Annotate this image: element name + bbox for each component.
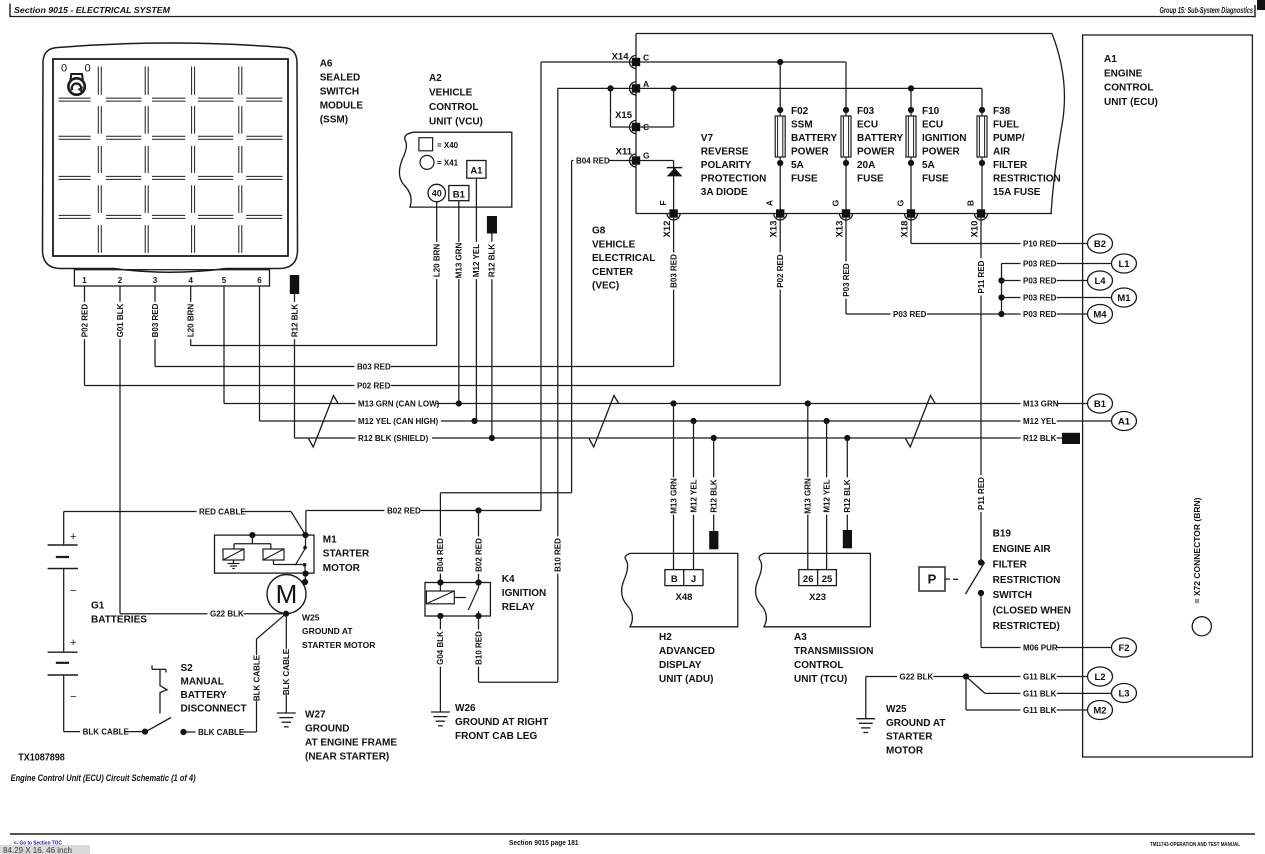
svg-text:M06 PUR: M06 PUR (1023, 643, 1058, 652)
svg-text:40: 40 (432, 188, 442, 198)
svg-text:BATTERY: BATTERY (181, 690, 227, 701)
svg-text:P11 RED: P11 RED (977, 477, 986, 510)
svg-text:B1: B1 (1094, 399, 1107, 410)
svg-text:A1: A1 (1104, 54, 1117, 65)
svg-text:FILTER: FILTER (993, 559, 1028, 570)
svg-text:(NEAR STARTER): (NEAR STARTER) (305, 752, 389, 763)
svg-text:P11 RED: P11 RED (977, 260, 986, 293)
svg-text:B1: B1 (453, 189, 466, 200)
svg-text:84.29 X 16. 46 inch: 84.29 X 16. 46 inch (3, 846, 72, 854)
svg-text:SSM: SSM (791, 120, 813, 131)
svg-text:FRONT CAB LEG: FRONT CAB LEG (455, 731, 537, 742)
svg-text:P: P (928, 572, 937, 587)
svg-text:Section 9015 page 181: Section 9015 page 181 (509, 838, 579, 847)
svg-text:IGNITION: IGNITION (502, 588, 546, 599)
svg-text:M13 GRN: M13 GRN (1023, 399, 1059, 408)
svg-text:F2: F2 (1118, 643, 1129, 654)
svg-text:A1: A1 (1118, 416, 1131, 427)
svg-text:L2: L2 (1094, 672, 1105, 683)
svg-text:3: 3 (153, 276, 158, 285)
svg-text:(CLOSED WHEN: (CLOSED WHEN (993, 606, 1071, 617)
svg-text:G: G (831, 199, 841, 206)
svg-text:POWER: POWER (922, 147, 961, 158)
svg-text:BATTERY: BATTERY (791, 133, 837, 144)
svg-text:AIR: AIR (993, 147, 1011, 158)
svg-text:P02 RED: P02 RED (357, 381, 391, 390)
svg-text:−: − (70, 691, 76, 703)
svg-text:MOTOR: MOTOR (886, 745, 924, 756)
svg-text:G11 BLK: G11 BLK (1023, 672, 1057, 681)
svg-text:M1: M1 (1117, 293, 1131, 304)
svg-text:G01 BLK: G01 BLK (116, 303, 125, 337)
svg-text:ELECTRICAL: ELECTRICAL (592, 253, 655, 264)
svg-text:(SSM): (SSM) (320, 115, 348, 126)
svg-text:M12 YEL: M12 YEL (689, 479, 698, 512)
svg-text:F38: F38 (993, 106, 1011, 117)
svg-text:Engine Control Unit (ECU) Circ: Engine Control Unit (ECU) Circuit Schema… (11, 773, 196, 783)
svg-text:P03 RED: P03 RED (1023, 310, 1057, 319)
svg-text:M13 GRN (CAN LOW): M13 GRN (CAN LOW) (358, 399, 440, 408)
svg-text:5A: 5A (791, 160, 804, 171)
svg-text:X48: X48 (676, 592, 693, 603)
svg-text:X13: X13 (835, 221, 846, 238)
svg-text:C: C (643, 122, 649, 132)
svg-text:= X40: = X40 (437, 141, 459, 150)
svg-text:STARTER: STARTER (886, 732, 933, 743)
svg-text:A: A (765, 200, 775, 206)
svg-text:L3: L3 (1118, 688, 1129, 699)
svg-text:X13: X13 (769, 221, 780, 238)
svg-text:TX1087898: TX1087898 (18, 752, 65, 764)
svg-text:M13 GRN: M13 GRN (804, 478, 813, 514)
svg-text:26: 26 (803, 574, 814, 585)
svg-text:W26: W26 (455, 703, 476, 714)
svg-text:L20 BRN: L20 BRN (433, 244, 442, 278)
svg-text:B03 RED: B03 RED (669, 254, 678, 288)
svg-text:C: C (643, 53, 649, 63)
svg-text:REVERSE: REVERSE (701, 147, 749, 158)
svg-text:GROUND AT: GROUND AT (886, 718, 945, 729)
svg-text:B03 RED: B03 RED (151, 303, 160, 337)
svg-text:B2: B2 (1094, 239, 1106, 250)
svg-text:POWER: POWER (791, 147, 830, 158)
svg-text:P03 RED: P03 RED (1023, 276, 1057, 285)
svg-text:B04 RED: B04 RED (576, 157, 610, 166)
svg-text:ENGINE: ENGINE (1104, 68, 1143, 79)
svg-text:Group 15: Sub-System Diagnosti: Group 15: Sub-System Diagnostics (1160, 6, 1254, 15)
svg-text:M1: M1 (323, 534, 337, 545)
svg-text:L1: L1 (1118, 259, 1130, 270)
svg-text:P02 RED: P02 RED (80, 304, 89, 338)
svg-text:UNIT (TCU): UNIT (TCU) (794, 674, 847, 685)
svg-text:ENGINE AIR: ENGINE AIR (993, 544, 1052, 555)
svg-text:FUSE: FUSE (922, 174, 949, 185)
svg-text:G11 BLK: G11 BLK (1023, 706, 1057, 715)
svg-text:FUSE: FUSE (857, 174, 884, 185)
svg-text:BATTERIES: BATTERIES (91, 615, 147, 626)
svg-text:FUSE: FUSE (791, 174, 818, 185)
svg-text:(VEC): (VEC) (592, 281, 619, 292)
svg-text:H2: H2 (659, 632, 672, 643)
svg-text:P03 RED: P03 RED (1023, 259, 1057, 268)
svg-text:B: B (671, 574, 678, 585)
svg-text:B03 RED: B03 RED (357, 362, 391, 371)
svg-text:R12 BLK (SHIELD): R12 BLK (SHIELD) (358, 434, 429, 443)
svg-text:UNIT (ADU): UNIT (ADU) (659, 674, 713, 685)
svg-text:G22 BLK: G22 BLK (210, 610, 244, 619)
svg-text:M2: M2 (1093, 705, 1106, 716)
svg-text:BLK CABLE: BLK CABLE (282, 648, 291, 695)
svg-text:RELAY: RELAY (502, 602, 535, 613)
svg-text:S2: S2 (181, 663, 194, 674)
svg-text:20A: 20A (857, 160, 875, 171)
svg-text:G8: G8 (592, 226, 606, 237)
svg-text:F02: F02 (791, 106, 809, 117)
svg-text:X18: X18 (900, 221, 911, 238)
svg-text:X12: X12 (662, 221, 673, 238)
svg-text:A6: A6 (320, 59, 333, 70)
svg-text:−: − (70, 585, 76, 597)
svg-text:L4: L4 (1094, 276, 1106, 287)
svg-text:3A DIODE: 3A DIODE (701, 187, 748, 198)
svg-text:CONTROL: CONTROL (794, 660, 843, 671)
svg-text:GROUND AT: GROUND AT (302, 626, 353, 636)
svg-text:STARTER MOTOR: STARTER MOTOR (302, 640, 375, 650)
svg-text:B02 RED: B02 RED (387, 506, 421, 515)
svg-text:W25: W25 (302, 612, 320, 622)
svg-text:G11 BLK: G11 BLK (1023, 689, 1057, 698)
svg-text:R12 BLK: R12 BLK (290, 304, 299, 338)
svg-text:M12 YEL: M12 YEL (472, 244, 481, 277)
svg-text:B19: B19 (993, 529, 1012, 540)
svg-text:X23: X23 (809, 592, 826, 603)
svg-text:J: J (691, 574, 696, 585)
svg-text:A1: A1 (470, 165, 483, 176)
svg-text:PUMP/: PUMP/ (993, 133, 1025, 144)
svg-text:X14: X14 (612, 52, 630, 63)
svg-text:15A FUSE: 15A FUSE (993, 187, 1041, 198)
svg-text:B02 RED: B02 RED (474, 538, 483, 572)
svg-text:B04 RED: B04 RED (436, 538, 445, 572)
svg-text:CENTER: CENTER (592, 267, 634, 278)
svg-text:CONTROL: CONTROL (1104, 83, 1153, 94)
svg-text:BLK CABLE: BLK CABLE (83, 728, 130, 737)
svg-text:K4: K4 (502, 574, 515, 585)
svg-text:FILTER: FILTER (993, 160, 1028, 171)
svg-text:G: G (896, 199, 906, 206)
svg-text:M12 YEL: M12 YEL (822, 479, 831, 512)
svg-text:A3: A3 (794, 632, 807, 643)
svg-text:STARTER: STARTER (323, 549, 370, 560)
svg-text:R12 BLK: R12 BLK (488, 244, 497, 278)
svg-text:MOTOR: MOTOR (323, 563, 361, 574)
svg-text:P03 RED: P03 RED (893, 310, 927, 319)
svg-text:BLK CABLE: BLK CABLE (252, 654, 261, 701)
svg-text:CONTROL: CONTROL (429, 102, 478, 113)
svg-text:PROTECTION: PROTECTION (701, 174, 767, 185)
svg-text:F: F (658, 200, 668, 205)
svg-text:DISPLAY: DISPLAY (659, 660, 702, 671)
svg-text:RESTRICTION: RESTRICTION (993, 174, 1061, 185)
svg-text:P02 RED: P02 RED (776, 254, 785, 288)
svg-text:1: 1 (82, 276, 87, 285)
svg-text:FUEL: FUEL (993, 120, 1019, 131)
svg-text:M4: M4 (1093, 309, 1107, 320)
svg-text:= X41: = X41 (437, 159, 459, 168)
svg-text:R12 BLK: R12 BLK (710, 479, 719, 513)
svg-text:BLK CABLE: BLK CABLE (198, 728, 245, 737)
svg-text:P03 RED: P03 RED (1023, 293, 1057, 302)
svg-text:UNIT (VCU): UNIT (VCU) (429, 117, 483, 128)
svg-text:TRANSMIISSION: TRANSMIISSION (794, 646, 873, 657)
svg-text:POWER: POWER (857, 147, 896, 158)
svg-text:G22 BLK: G22 BLK (900, 672, 934, 681)
svg-text:2: 2 (118, 276, 123, 285)
svg-text:SWITCH: SWITCH (320, 87, 359, 98)
svg-text:W27: W27 (305, 710, 326, 721)
svg-text:AT ENGINE FRAME: AT ENGINE FRAME (305, 738, 397, 749)
svg-text:6: 6 (257, 276, 262, 285)
svg-text:5A: 5A (922, 160, 935, 171)
svg-text:M13 GRN: M13 GRN (669, 478, 678, 514)
svg-text:Section 9015 - ELECTRICAL SYST: Section 9015 - ELECTRICAL SYSTEM (14, 5, 171, 15)
svg-text:R12 BLK: R12 BLK (843, 479, 852, 513)
svg-text:IGNITION: IGNITION (922, 133, 966, 144)
svg-text:RESTRICTION: RESTRICTION (993, 575, 1061, 586)
svg-text:L20 BRN: L20 BRN (187, 304, 196, 338)
svg-text:SEALED: SEALED (320, 73, 361, 84)
svg-text:DISCONNECT: DISCONNECT (181, 704, 247, 715)
svg-text:M13 GRN: M13 GRN (455, 242, 464, 278)
svg-text:ADVANCED: ADVANCED (659, 646, 715, 657)
svg-text:F10: F10 (922, 106, 940, 117)
svg-text:SWITCH: SWITCH (993, 590, 1032, 601)
svg-text:P03 RED: P03 RED (842, 263, 851, 297)
svg-text:M12 YEL (CAN HIGH): M12 YEL (CAN HIGH) (358, 417, 438, 426)
svg-text:G04 BLK: G04 BLK (436, 631, 445, 665)
svg-text:VEHICLE: VEHICLE (592, 239, 636, 250)
svg-text:ECU: ECU (922, 120, 943, 131)
svg-text:RED CABLE: RED CABLE (199, 507, 246, 516)
svg-text:+: + (70, 531, 76, 543)
svg-text:GROUND: GROUND (305, 724, 349, 735)
svg-text:TM11743-OPERATION AND TEST MAN: TM11743-OPERATION AND TEST MANUAL (1150, 842, 1240, 848)
svg-text:RESTRICTED): RESTRICTED) (993, 621, 1060, 632)
svg-text:4: 4 (188, 276, 193, 285)
svg-text:BATTERY: BATTERY (857, 133, 903, 144)
svg-text:V7: V7 (701, 133, 714, 144)
svg-text:+: + (70, 637, 76, 649)
svg-text:ECU: ECU (857, 120, 878, 131)
svg-text:GROUND AT RIGHT: GROUND AT RIGHT (455, 717, 548, 728)
svg-text:MODULE: MODULE (320, 101, 364, 112)
svg-text:25: 25 (822, 574, 833, 585)
svg-text:VEHICLE: VEHICLE (429, 88, 473, 99)
svg-text:B10 RED: B10 RED (554, 538, 563, 572)
svg-text:0: 0 (61, 63, 67, 75)
svg-text:B10 RED: B10 RED (474, 631, 483, 665)
svg-text:MANUAL: MANUAL (181, 677, 224, 688)
svg-text:F03: F03 (857, 106, 875, 117)
svg-text:M12 YEL: M12 YEL (1023, 417, 1056, 426)
svg-text:X11: X11 (616, 147, 633, 158)
svg-text:W25: W25 (886, 704, 907, 715)
svg-text:UNIT (ECU): UNIT (ECU) (1104, 97, 1158, 108)
svg-text:P10 RED: P10 RED (1023, 239, 1057, 248)
svg-text:X10: X10 (970, 221, 981, 238)
svg-text:5: 5 (222, 276, 227, 285)
svg-text:B: B (966, 200, 976, 206)
svg-text:0: 0 (85, 63, 91, 75)
svg-text:G: G (643, 151, 650, 161)
svg-text:G1: G1 (91, 601, 105, 612)
svg-text:A: A (643, 79, 649, 89)
svg-text:M: M (276, 579, 298, 609)
svg-text:POLARITY: POLARITY (701, 160, 752, 171)
svg-text:R12 BLK: R12 BLK (1023, 434, 1057, 443)
svg-text:A2: A2 (429, 73, 442, 84)
svg-text:= X72 CONNECTOR (BRN): = X72 CONNECTOR (BRN) (1192, 497, 1202, 603)
svg-text:X15: X15 (615, 110, 633, 121)
